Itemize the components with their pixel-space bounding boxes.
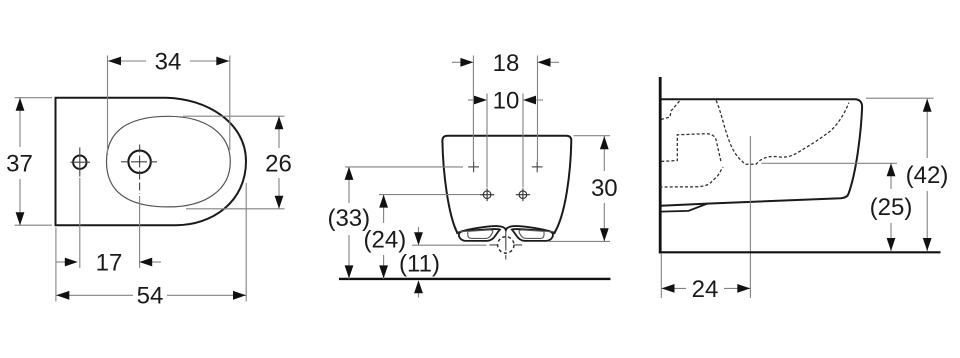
tap hole small circle	[73, 156, 86, 169]
dimension (42) extension line	[866, 97, 934, 99]
dimension 54 line	[56, 294, 246, 296]
inner bowl rim oval	[107, 116, 231, 207]
right fixing cross	[532, 162, 543, 173]
dimension (42) line	[926, 99, 928, 251]
dimension (11) extension line	[412, 244, 487, 246]
wall face extension below floor	[660, 254, 662, 298]
drain dashed circle (front)	[498, 237, 514, 253]
bottom bar with centre notch	[456, 226, 555, 233]
dimension (33) extension line	[345, 166, 463, 168]
dimension (11) bottom arrow	[418, 293, 420, 298]
dimension 17 line left arrow	[56, 261, 66, 263]
left foot pocket outer	[459, 229, 500, 241]
dimension 37 arrowheads	[16, 98, 25, 111]
dimension 10 extension lines	[487, 94, 523, 188]
svg-text:30: 30	[591, 175, 618, 202]
svg-text:10: 10	[493, 88, 520, 115]
drain hole centerlines dash-dot	[121, 161, 158, 163]
right fixing hole symbol	[519, 191, 527, 199]
svg-text:18: 18	[493, 50, 520, 77]
svg-text:17: 17	[96, 250, 123, 277]
floor line (side view)	[659, 251, 941, 253]
drain hole extension line down	[139, 196, 141, 268]
dimension (25) line	[890, 163, 892, 251]
hidden bottom contour (dashed)	[660, 167, 724, 187]
drain centre line (side)	[749, 136, 751, 298]
dimension (33) arrowheads	[345, 167, 354, 180]
left fixing hole symbol	[483, 191, 491, 199]
svg-text:(42): (42)	[906, 162, 949, 189]
bidet body outline (side view)	[661, 99, 862, 206]
dimension (24) extension line	[379, 194, 480, 196]
bidet body outline (top view)	[56, 98, 247, 226]
svg-text:34: 34	[155, 49, 182, 76]
svg-text:54: 54	[137, 283, 164, 310]
dimension 54 arrowheads	[56, 291, 69, 300]
tap hole crosshair	[71, 148, 91, 177]
right foot pocket inner	[519, 230, 544, 239]
dimension (33) line	[348, 167, 350, 279]
dimension 54 extension lines	[56, 183, 246, 302]
dimension 24 line	[662, 287, 751, 289]
dimension 24 arrowheads	[662, 284, 675, 293]
dimension (11) top arrow	[418, 227, 420, 233]
svg-text:(24): (24)	[364, 227, 407, 254]
svg-text:24: 24	[692, 276, 719, 303]
dimension 34 extension lines	[108, 56, 230, 156]
left fixing cross	[468, 162, 479, 173]
svg-text:(11): (11)	[399, 251, 440, 278]
dimension 30 extension lines	[549, 136, 610, 242]
svg-text:26: 26	[265, 151, 292, 178]
dimension 18 arrows	[452, 61, 462, 63]
dimension 26 line	[278, 116, 280, 209]
dimension (25) arrowheads	[887, 163, 896, 176]
dimension 37 line	[19, 98, 21, 226]
dimension 37 extension lines	[15, 98, 53, 226]
dimension (42) arrowheads	[923, 99, 932, 112]
svg-text:(25): (25)	[870, 194, 913, 221]
dimension 30 line	[603, 136, 605, 242]
left foot pocket inner	[468, 230, 493, 239]
dimension 26 arrowheads	[275, 116, 284, 129]
dimension (24) arrowheads	[379, 195, 388, 208]
hidden bowl profile (dashed)	[716, 101, 849, 165]
dimension 34 arrowheads	[108, 57, 121, 66]
hidden trap box (dashed)	[661, 134, 721, 163]
bottom step line	[661, 204, 707, 212]
drain crosshair (front)	[505, 232, 507, 260]
wall line	[659, 77, 662, 253]
dimension 34 line	[108, 60, 229, 62]
dimension 18 extension lines	[473, 56, 537, 162]
dimension (24) line	[383, 195, 385, 279]
dimension 17 line right arrow	[152, 261, 161, 263]
tap hole extension line down	[79, 178, 81, 268]
hidden inlet channel (dashed)	[661, 101, 680, 120]
dimension (25) extension line	[762, 162, 898, 164]
right foot pocket outer	[512, 229, 553, 241]
small ledge lines near hooks	[458, 230, 555, 233]
floor line (front view)	[339, 278, 611, 280]
bidet body outline (front view)	[442, 136, 571, 234]
dimension 10 arrows	[468, 99, 475, 101]
dimension 30 arrowheads	[600, 136, 609, 149]
dimension 26 extension lines	[183, 116, 285, 209]
svg-text:37: 37	[6, 151, 33, 178]
drain hole big circle	[128, 151, 150, 173]
